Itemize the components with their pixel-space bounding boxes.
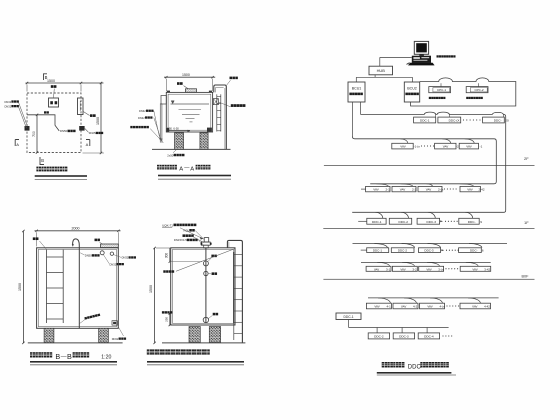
svg-text:DDC: DDC: [408, 364, 422, 370]
VAV-2-42 box: [460, 186, 480, 191]
svg-text:DDC-: DDC-: [470, 249, 478, 253]
section marker B bottom: [40, 157, 44, 165]
dots DDC branch row: [442, 335, 443, 336]
svg-text:DN32: DN32: [110, 262, 117, 266]
svg-text:VAV: VAV: [443, 145, 449, 149]
svg-text:1:20: 1:20: [101, 354, 111, 360]
svg-text:VAV: VAV: [400, 267, 405, 271]
ladder right sensor drawing: [233, 252, 235, 340]
dots roof DDC row: [463, 119, 464, 120]
pipe circle DN32 expansion B-B: [100, 251, 104, 255]
svg-text:CPC-1: CPC-1: [437, 88, 446, 92]
svg-text:CPC-2: CPC-2: [474, 88, 483, 92]
svg-text:VAV: VAV: [373, 188, 379, 192]
svg-text:DDC-2: DDC-2: [399, 220, 409, 224]
label float lower: [212, 272, 215, 275]
svg-text:DDC-2: DDC-2: [374, 335, 384, 339]
svg-text:-1: -1: [480, 145, 483, 149]
dim line 1500 section A-A: [164, 76, 215, 78]
DDC-3 1F box: [417, 218, 440, 224]
VAV-4 bus: [368, 297, 499, 299]
svg-text:3-1: 3-1: [386, 267, 391, 271]
svg-text:VAV: VAV: [427, 305, 432, 309]
DDC-1 1F box: [367, 218, 386, 224]
computer system unit: [412, 56, 431, 63]
controller CPC-1: [429, 87, 451, 93]
bus loop BCU2 to chiller controllers: [411, 78, 516, 106]
tank shell sensor drawing: [171, 248, 235, 325]
svg-text:2-42: 2-42: [479, 188, 485, 192]
svg-text:VAV: VAV: [472, 267, 477, 271]
dim line 700 left: [36, 115, 38, 153]
DDC-1 master box basement: [336, 313, 361, 320]
wire drops DDC roof row: [435, 114, 437, 117]
label three-way valve pipe A-A: [130, 126, 132, 128]
VAV-2-2 box: [392, 186, 416, 191]
wire DDC-1 master to branch: [348, 320, 350, 328]
VAV-4-1 box: [366, 303, 391, 309]
tank bottom right drain block A-A: [207, 128, 212, 132]
DDC-2 1F box: [389, 218, 411, 224]
label level sensor A-A: [231, 104, 234, 107]
svg-text:—: —: [61, 354, 67, 360]
svg-text:DDC-: DDC-: [468, 220, 476, 224]
title section A-A: [157, 165, 162, 170]
VAV-3-(n box: [419, 266, 444, 271]
drain valve bottom right B-B: [112, 321, 117, 325]
label adapter flange: [183, 234, 186, 237]
VAV-4-(n box: [420, 303, 445, 309]
wire drop CPC-1: [440, 83, 442, 86]
DDC-1 basement box: [367, 248, 389, 253]
dim line 1500 top: [26, 82, 104, 84]
svg-text:A: A: [179, 166, 183, 172]
label overflow pipe A-A: [230, 77, 233, 80]
svg-text:DN50: DN50: [60, 129, 68, 133]
svg-text:2-2: 2-2: [412, 188, 417, 192]
svg-text:BCU1: BCU1: [352, 86, 362, 90]
dim line 1500 left sensor drawing: [154, 248, 156, 343]
svg-text:VAV: VAV: [472, 305, 477, 309]
foundation right B-B: [99, 328, 109, 342]
ground line A-A: [152, 148, 231, 150]
svg-text:DDC-1: DDC-1: [343, 315, 353, 319]
wire BCU1 to DDC bus: [360, 102, 362, 114]
dots VAV-2 row: [444, 188, 445, 189]
svg-text:DDC-1: DDC-1: [420, 119, 430, 123]
svg-text:VAV: VAV: [400, 188, 406, 192]
dots VAV-4 row: [446, 305, 447, 306]
svg-text:A: A: [16, 142, 19, 147]
svg-text:KQL: KQL: [184, 229, 190, 233]
water level mark A-A: [171, 101, 174, 104]
label ladder B-B: [33, 237, 36, 240]
svg-text:DDC-2: DDC-2: [398, 249, 407, 253]
foundation left A-A: [175, 133, 184, 150]
wire drops VAV-4 row: [378, 298, 390, 303]
manhole cover on tank top A-A: [186, 89, 197, 92]
computer stand: [419, 54, 424, 56]
svg-text:HUB: HUB: [377, 68, 386, 73]
DDC bus roof row with riser: [352, 112, 506, 212]
riser BCU1 to VAV bus: [352, 102, 354, 137]
svg-text:-2: -2: [456, 145, 459, 149]
svg-text:2-(n: 2-(n: [438, 188, 444, 192]
controller CPC-2: [466, 87, 488, 93]
DDC-20 roof box: [483, 117, 505, 123]
svg-text:UQK-71: UQK-71: [162, 223, 173, 227]
svg-text:A: A: [86, 142, 89, 147]
DDC-1 roof box: [414, 117, 436, 123]
dots VAV 2F row: [421, 145, 422, 146]
svg-text:20: 20: [505, 119, 509, 123]
svg-text:B: B: [67, 352, 72, 361]
foundation left B-B: [44, 328, 54, 342]
water level lines A-A: [171, 103, 210, 105]
svg-text:2x50: 2x50: [167, 153, 174, 157]
dots VAV-3 row: [445, 268, 446, 269]
left wall fitting plan: [25, 126, 30, 131]
svg-text:VAV: VAV: [467, 188, 473, 192]
VAV-3-1 box: [366, 266, 391, 271]
tank A-A outer shell: [166, 92, 212, 132]
foundation left sensor drawing: [189, 327, 200, 343]
svg-text:700: 700: [32, 131, 36, 137]
svg-text:VAV: VAV: [400, 145, 406, 149]
svg-text:DDC-3: DDC-3: [399, 335, 409, 339]
DDC-9 1F box: [459, 218, 479, 224]
svg-text:4-1: 4-1: [387, 305, 392, 309]
computer base shadow: [408, 63, 434, 65]
overflow pipe line in plan: [27, 115, 59, 131]
HUB box: [369, 66, 393, 75]
svg-text:DN32: DN32: [5, 104, 12, 108]
DDC basement bus: [353, 243, 508, 245]
title underline DDC schematic: [377, 372, 452, 374]
wire drops VAV 2F row: [400, 139, 408, 144]
ladder A-A: [216, 94, 218, 131]
sensor head stack: [204, 238, 209, 242]
label manhole A-A: [177, 82, 180, 85]
title tank plan: [36, 167, 41, 172]
section marker B top: [44, 74, 48, 80]
wire drops DDC 1F row: [375, 212, 383, 218]
svg-text:3-(n: 3-(n: [438, 267, 444, 271]
wire computer to HUB: [380, 56, 412, 58]
VAV-1-2 box: [435, 143, 456, 149]
svg-text:VAV: VAV: [426, 267, 431, 271]
svg-text:VAV: VAV: [374, 267, 379, 271]
DDC-3 branch box: [393, 333, 414, 339]
label manhole B-B: [95, 239, 98, 242]
svg-text:VAV: VAV: [466, 145, 472, 149]
svg-text:9: 9: [480, 220, 482, 224]
svg-text:B: B: [41, 158, 44, 163]
floor line 1F: [323, 228, 534, 230]
float ball lower: [204, 271, 208, 275]
svg-text:VAV: VAV: [374, 305, 379, 309]
arrow and dots DDC basement row: [442, 250, 444, 252]
central computer monitor: [414, 41, 428, 54]
svg-text:DN32: DN32: [139, 109, 146, 113]
svg-text:1500: 1500: [149, 285, 153, 293]
tank inner wall leader line: [176, 249, 235, 272]
dim line 1500 left B-B: [22, 231, 24, 343]
svg-text:VAV: VAV: [401, 305, 406, 309]
label ladder plan: [90, 114, 93, 117]
svg-text:DN25: DN25: [89, 131, 96, 135]
title section B-B: [30, 352, 35, 357]
svg-text:4-42: 4-42: [484, 305, 490, 309]
VAV-2-(n box: [418, 186, 442, 191]
label float upper: [211, 255, 214, 258]
ladder in plan: [78, 98, 84, 115]
dim line 1500 right: [100, 83, 102, 153]
label tank inner wall: [163, 270, 165, 272]
external pipe right sensor drawing: [227, 240, 242, 343]
svg-text:DN15X4.5: DN15X4.5: [174, 238, 187, 242]
VAV-4-42 box: [460, 303, 491, 309]
dim line 2000 top B-B: [35, 230, 121, 232]
VAV-2-1 box: [366, 186, 390, 191]
svg-text:4-(n: 4-(n: [440, 305, 446, 309]
dim 300 sensor depth: [169, 248, 171, 262]
manhole bar top right B-B: [101, 244, 119, 248]
svg-text:3-42: 3-42: [484, 267, 490, 271]
label central monitoring computer: [437, 55, 439, 57]
svg-text:1500: 1500: [47, 79, 55, 83]
svg-text:B: B: [45, 75, 48, 80]
DDC-4 branch box: [418, 333, 439, 339]
level sensor flange on right wall A-A: [213, 99, 218, 105]
arrow and dots DDC 1F row: [440, 221, 442, 222]
VAV-3 bus: [361, 261, 491, 263]
svg-text:DN32: DN32: [138, 116, 145, 120]
VAV-4-2 box: [393, 303, 418, 309]
svg-text:DN32: DN32: [122, 256, 129, 260]
svg-text:DDC-4: DDC-4: [424, 335, 434, 339]
swan neck overflow pipe B-B: [73, 239, 80, 328]
svg-text:-1-(n: -1-(n: [414, 145, 421, 149]
controller BCU2: [404, 82, 419, 102]
manhole square in plan: [49, 98, 59, 107]
title underline sensor installation: [147, 361, 244, 363]
svg-text:B0F: B0F: [522, 275, 530, 279]
title underline A-A: [158, 175, 231, 177]
label chiller controller 2: [466, 97, 468, 99]
foundation right A-A: [200, 133, 208, 150]
wire drops VAV-2 row: [376, 184, 388, 187]
title DDC system schematic: [382, 362, 387, 367]
DDC-2 branch box: [368, 333, 389, 339]
floor line 2F: [324, 165, 535, 167]
leader level sensor A-A: [219, 102, 231, 107]
tank A-A top corner tabs: [167, 91, 170, 93]
label drain to floor B-B: [84, 313, 100, 319]
counterweight: [203, 317, 208, 322]
svg-text:DDC-3: DDC-3: [427, 220, 437, 224]
VAV 2F bus with riser to row below: [353, 137, 497, 184]
pipe circle DN32 circulation B-B: [110, 252, 113, 255]
wire drop CPC-2: [477, 83, 479, 86]
svg-text:DDC-1: DDC-1: [372, 220, 382, 224]
tank B-B shell: [37, 248, 119, 328]
label counterweight: [213, 313, 216, 316]
float ball upper: [203, 261, 208, 266]
DDC-6 basement box: [459, 248, 482, 253]
ground line B-B: [28, 342, 123, 344]
DDC-2 basement box: [391, 248, 414, 253]
title underline B-B: [30, 361, 117, 363]
title sensor installation: [147, 349, 152, 354]
label chiller controller 1: [429, 97, 431, 99]
svg-text:DDC-1: DDC-1: [373, 249, 382, 253]
DDC-3 basement box: [419, 248, 441, 253]
label bottom left sensor: [162, 311, 164, 313]
sensor rod: [205, 248, 207, 323]
svg-text:DN50: DN50: [85, 254, 92, 258]
section marker A right: [86, 140, 90, 147]
tank bottom left fitting A-A: [167, 128, 170, 132]
svg-text:DDC-3: DDC-3: [424, 249, 433, 253]
dim 250 bottom left sensor: [169, 314, 171, 326]
svg-text:250: 250: [165, 317, 169, 322]
VAV-1-(n box: [392, 143, 413, 149]
svg-text:DDC-: DDC-: [494, 119, 502, 123]
VAV-3-2 box: [392, 266, 417, 271]
controller BCU1: [348, 82, 365, 102]
svg-text:2F: 2F: [524, 156, 529, 161]
svg-text:VAV: VAV: [426, 188, 432, 192]
foundation right sensor drawing: [209, 327, 220, 343]
floor line B0F: [323, 278, 534, 280]
VAV-1-1 box: [459, 143, 478, 149]
svg-text:2000: 2000: [72, 227, 80, 231]
tank plan dashed outline: [27, 93, 81, 153]
svg-text:BCU2: BCU2: [407, 86, 417, 90]
svg-text:DN32: DN32: [112, 337, 119, 341]
wire drops DDC basement row: [374, 244, 387, 248]
svg-text:DDC-(X: DDC-(X: [449, 119, 460, 123]
VAV-3-42 box: [460, 266, 491, 271]
ground line sensor drawing: [162, 342, 245, 344]
svg-text:3-2: 3-2: [412, 267, 417, 271]
svg-text:DN32: DN32: [5, 100, 12, 104]
wire HUB splitter: [374, 75, 376, 78]
wire drops VAV-3 row: [377, 262, 389, 266]
svg-text:1500: 1500: [18, 283, 22, 291]
left connection pipes A-A: [159, 104, 161, 143]
title underline tank plan: [35, 175, 87, 177]
svg-text:1500: 1500: [182, 73, 190, 77]
svg-text:300: 300: [165, 253, 169, 259]
section marker A left: [15, 140, 19, 147]
svg-text:B: B: [55, 352, 60, 361]
svg-text:4-2: 4-2: [413, 305, 418, 309]
DDC-(X roof box: [438, 117, 461, 123]
svg-text:1500: 1500: [96, 117, 100, 125]
right wall fitting plan: [79, 126, 84, 131]
svg-text:2-1: 2-1: [386, 188, 391, 192]
svg-text:A: A: [190, 166, 194, 172]
overflow pipe A-A: [214, 85, 227, 149]
ladder B-B: [46, 250, 48, 324]
svg-text:1F: 1F: [524, 220, 529, 225]
